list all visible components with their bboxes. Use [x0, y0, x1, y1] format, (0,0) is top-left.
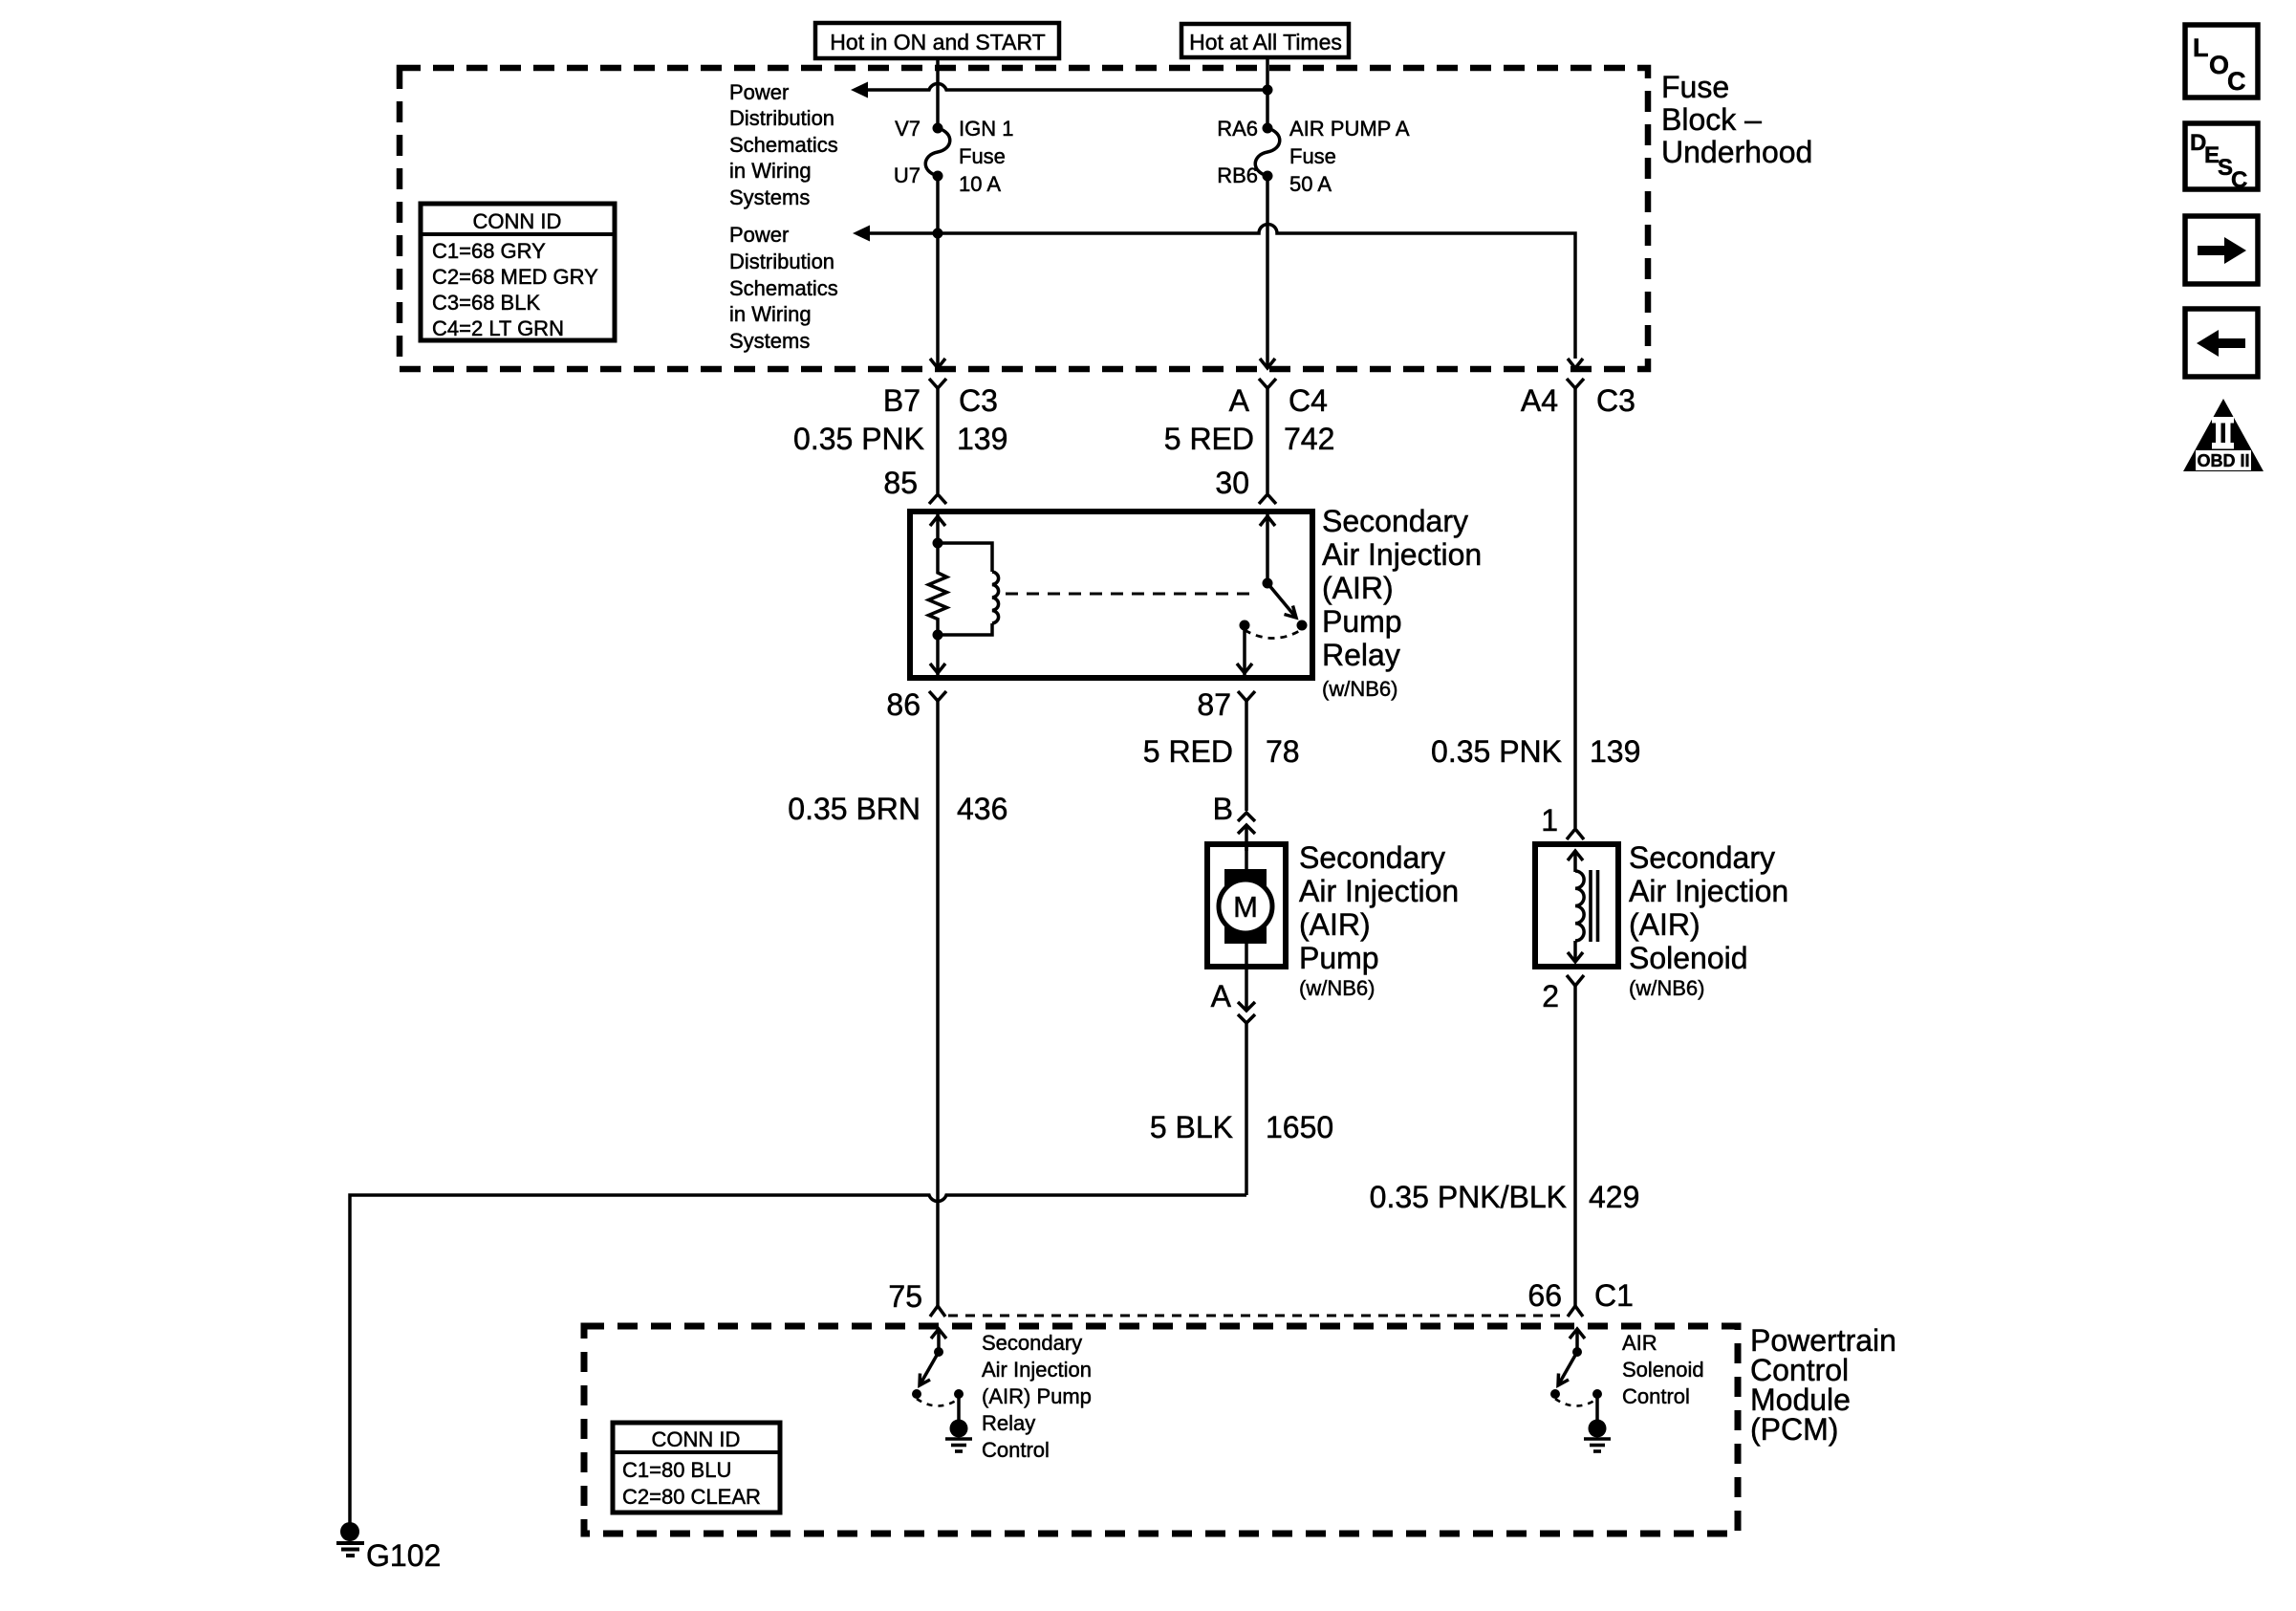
svg-text:Schematics: Schematics [729, 276, 838, 300]
svg-text:C4: C4 [1289, 383, 1328, 418]
svg-text:RA6: RA6 [1217, 117, 1258, 141]
svg-text:436: 436 [957, 792, 1007, 826]
svg-text:429: 429 [1589, 1180, 1639, 1214]
svg-text:1: 1 [1541, 803, 1558, 838]
svg-text:(w/NB6): (w/NB6) [1299, 976, 1375, 1000]
svg-text:139: 139 [1590, 734, 1640, 769]
svg-text:Schematics: Schematics [729, 133, 838, 157]
svg-text:C4=2 LT GRN: C4=2 LT GRN [432, 316, 564, 340]
svg-text:C1: C1 [1594, 1278, 1634, 1313]
svg-text:0.35 BRN: 0.35 BRN [788, 792, 921, 826]
svg-text:Solenoid: Solenoid [1629, 941, 1748, 975]
svg-text:B7: B7 [883, 383, 921, 418]
svg-text:C2=80 CLEAR: C2=80 CLEAR [622, 1485, 761, 1509]
svg-text:139: 139 [957, 422, 1007, 456]
svg-text:5 RED: 5 RED [1164, 422, 1254, 456]
svg-text:Relay: Relay [1322, 638, 1400, 672]
svg-text:U7: U7 [894, 163, 921, 187]
svg-text:Block –: Block – [1661, 102, 1762, 137]
svg-text:M: M [1233, 890, 1258, 924]
svg-text:C: C [2231, 167, 2247, 193]
svg-text:5 BLK: 5 BLK [1150, 1110, 1233, 1144]
svg-text:Secondary: Secondary [982, 1331, 1082, 1355]
svg-text:C3: C3 [959, 383, 998, 418]
svg-text:10 A: 10 A [959, 172, 1001, 196]
svg-text:Hot in ON and START: Hot in ON and START [830, 30, 1045, 54]
svg-text:IGN 1: IGN 1 [959, 117, 1013, 141]
svg-text:Fuse: Fuse [1661, 70, 1729, 104]
svg-text:50 A: 50 A [1289, 172, 1332, 196]
svg-text:in Wiring: in Wiring [729, 302, 812, 326]
svg-text:30: 30 [1215, 466, 1249, 500]
svg-text:A4: A4 [1521, 383, 1558, 418]
svg-text:OBD II: OBD II [2197, 451, 2249, 470]
svg-text:Secondary: Secondary [1299, 840, 1445, 875]
svg-text:C1=80 BLU: C1=80 BLU [622, 1458, 731, 1482]
svg-text:Power: Power [729, 223, 789, 247]
svg-text:RB6: RB6 [1217, 163, 1258, 187]
svg-text:Control: Control [1622, 1384, 1690, 1408]
svg-text:1650: 1650 [1266, 1110, 1333, 1144]
svg-text:Hot at All Times: Hot at All Times [1189, 30, 1342, 54]
svg-text:2: 2 [1542, 979, 1559, 1013]
svg-text:Systems: Systems [729, 329, 810, 353]
svg-text:(PCM): (PCM) [1750, 1412, 1838, 1447]
svg-text:742: 742 [1284, 422, 1334, 456]
svg-text:78: 78 [1266, 734, 1300, 769]
svg-text:5 RED: 5 RED [1143, 734, 1233, 769]
svg-text:(AIR): (AIR) [1629, 907, 1700, 942]
svg-text:Pump: Pump [1299, 941, 1379, 975]
svg-text:Power: Power [729, 80, 789, 104]
svg-text:Secondary: Secondary [1322, 504, 1468, 538]
svg-text:CONN ID: CONN ID [473, 209, 562, 233]
svg-text:AIR: AIR [1622, 1331, 1657, 1355]
svg-text:C1=68 GRY: C1=68 GRY [432, 239, 546, 263]
svg-text:Distribution: Distribution [729, 106, 834, 130]
svg-text:(AIR): (AIR) [1299, 907, 1371, 942]
svg-text:G102: G102 [366, 1538, 441, 1573]
svg-text:(w/NB6): (w/NB6) [1322, 677, 1397, 701]
svg-text:66: 66 [1527, 1278, 1562, 1313]
svg-text:Fuse: Fuse [1289, 144, 1336, 168]
svg-text:AIR PUMP A: AIR PUMP A [1289, 117, 1410, 141]
svg-text:Relay: Relay [982, 1411, 1035, 1435]
svg-text:Air Injection: Air Injection [1322, 537, 1482, 572]
svg-text:O: O [2209, 51, 2229, 79]
svg-text:Air Injection: Air Injection [1629, 874, 1788, 908]
svg-text:C3: C3 [1596, 383, 1635, 418]
svg-text:0.35 PNK: 0.35 PNK [1431, 734, 1562, 769]
svg-text:Fuse: Fuse [959, 144, 1006, 168]
svg-text:85: 85 [883, 466, 918, 500]
svg-text:Solenoid: Solenoid [1622, 1358, 1704, 1382]
svg-text:0.35 PNK: 0.35 PNK [793, 422, 924, 456]
svg-text:(AIR): (AIR) [1322, 571, 1394, 605]
svg-text:86: 86 [886, 687, 921, 722]
svg-text:A: A [1229, 383, 1250, 418]
svg-text:C2=68 MED GRY: C2=68 MED GRY [432, 265, 598, 289]
svg-text:C3=68 BLK: C3=68 BLK [432, 291, 540, 315]
svg-text:Control: Control [982, 1438, 1050, 1462]
svg-text:A: A [1211, 979, 1232, 1013]
svg-text:Pump: Pump [1322, 604, 1402, 639]
svg-text:0.35 PNK/BLK: 0.35 PNK/BLK [1370, 1180, 1567, 1214]
svg-text:(w/NB6): (w/NB6) [1629, 976, 1704, 1000]
svg-text:L: L [2193, 33, 2209, 62]
svg-text:75: 75 [888, 1279, 922, 1314]
svg-text:Distribution: Distribution [729, 250, 834, 273]
svg-text:in Wiring: in Wiring [729, 159, 812, 183]
svg-text:V7: V7 [895, 117, 921, 141]
svg-text:Systems: Systems [729, 185, 810, 209]
svg-text:Air Injection: Air Injection [1299, 874, 1459, 908]
svg-text:B: B [1213, 792, 1233, 826]
svg-text:87: 87 [1197, 687, 1231, 722]
svg-text:Underhood: Underhood [1661, 135, 1812, 169]
svg-text:Secondary: Secondary [1629, 840, 1775, 875]
svg-text:C: C [2227, 67, 2246, 96]
svg-text:CONN ID: CONN ID [652, 1427, 741, 1451]
svg-text:Air Injection: Air Injection [982, 1358, 1092, 1382]
svg-text:(AIR) Pump: (AIR) Pump [982, 1384, 1092, 1408]
